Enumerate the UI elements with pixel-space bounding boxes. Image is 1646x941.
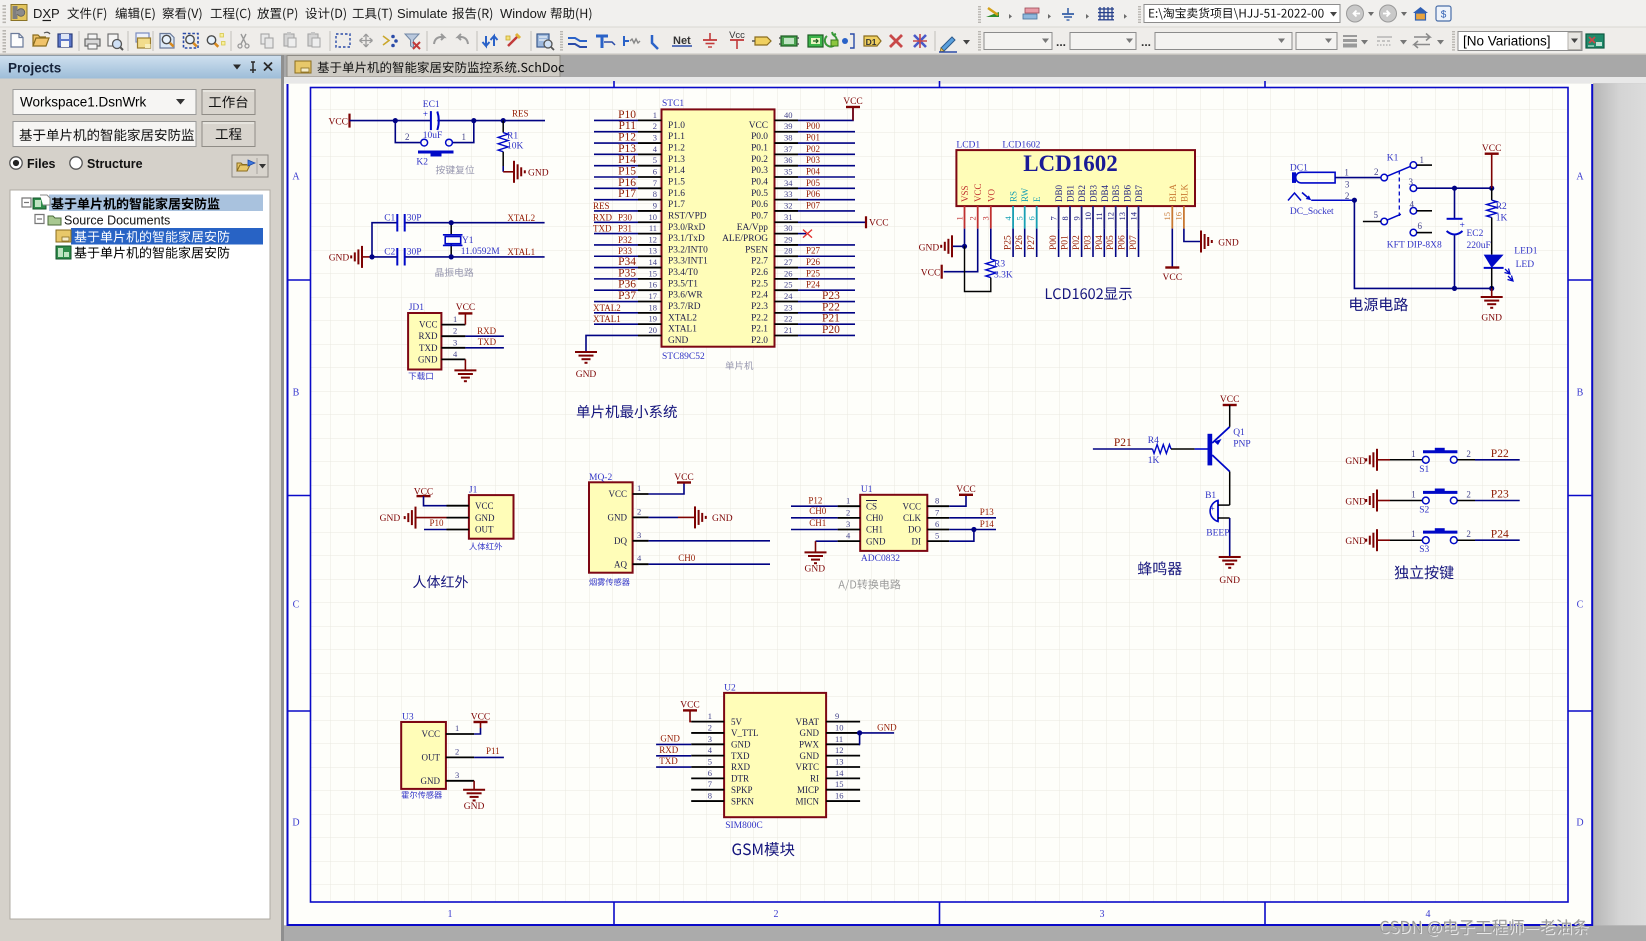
- svg-text:3: 3: [1345, 179, 1350, 189]
- keys caption: [1395, 565, 1454, 579]
- svg-text:GND: GND: [1218, 238, 1239, 248]
- toolbar: no-erc: [890, 35, 902, 47]
- svg-text:R4: R4: [1148, 436, 1159, 446]
- toolbar: paste (disabled): [284, 32, 296, 47]
- toolbar: browse library: [537, 34, 554, 50]
- svg-text:P3.4/T0: P3.4/T0: [668, 268, 698, 278]
- svg-text:P12: P12: [808, 495, 822, 505]
- svg-text:P01: P01: [1061, 235, 1071, 250]
- svg-text:DB0: DB0: [1054, 184, 1064, 202]
- svg-text:28: 28: [784, 246, 793, 256]
- svg-text:P23: P23: [822, 290, 840, 302]
- toolbar: place gnd: [703, 33, 717, 47]
- switch K1: [1374, 154, 1443, 251]
- svg-text:CS: CS: [866, 501, 877, 511]
- svg-text:VCC: VCC: [419, 320, 438, 330]
- svg-text:VCC: VCC: [1220, 395, 1240, 405]
- buzzer gnd: [1219, 518, 1241, 586]
- connector JD1: [408, 303, 465, 370]
- svg-text:P00: P00: [806, 121, 821, 131]
- svg-text:P0.5: P0.5: [751, 189, 768, 199]
- power junctions: [1352, 186, 1494, 291]
- svg-text:16: 16: [649, 280, 658, 290]
- svg-text:32: 32: [784, 200, 793, 210]
- svg-text:Y1: Y1: [462, 236, 474, 246]
- svg-text:[No Variations]: [No Variations]: [1463, 34, 1551, 49]
- toolbar: redo (disabled): [458, 34, 468, 44]
- svg-text:VCC: VCC: [608, 489, 627, 499]
- svg-text:P1.2: P1.2: [668, 144, 685, 154]
- toolbar: cross probe: [483, 36, 498, 46]
- svg-text:P15: P15: [618, 166, 636, 178]
- svg-text:8: 8: [653, 189, 657, 199]
- sheet outer border: [288, 84, 1593, 925]
- svg-text:GND: GND: [660, 734, 680, 744]
- svg-text:VCC: VCC: [956, 485, 976, 495]
- toolbar: place wire: [568, 38, 587, 47]
- svg-text:S3: S3: [1419, 545, 1429, 555]
- svg-text:P36: P36: [618, 279, 636, 291]
- svg-text:K2: K2: [416, 158, 428, 168]
- svg-text:P0.0: P0.0: [751, 132, 768, 142]
- toolbar combo 4: [1296, 33, 1337, 50]
- svg-text:5: 5: [708, 757, 712, 767]
- svg-text:14: 14: [835, 768, 844, 778]
- svg-text:B: B: [293, 388, 300, 399]
- toolbar: pin tool: [842, 34, 854, 48]
- svg-text:C: C: [293, 600, 300, 611]
- toolbar: new document: [11, 34, 23, 48]
- svg-text:P27: P27: [806, 246, 821, 256]
- svg-text:3: 3: [708, 734, 712, 744]
- svg-text:13: 13: [1117, 212, 1127, 221]
- mcu right wires P00-P07: [798, 121, 855, 211]
- canvas background: [284, 77, 1646, 941]
- toolbar: workspace documents: [136, 33, 151, 48]
- svg-text:1: 1: [1411, 529, 1416, 539]
- svg-text:P2.3: P2.3: [751, 302, 768, 312]
- svg-text:2: 2: [1466, 490, 1471, 500]
- pir connector J1: [447, 486, 514, 539]
- toolbar: fit document: [160, 34, 174, 49]
- svg-text:3: 3: [1409, 177, 1414, 187]
- svg-text:DXP: DXP: [33, 6, 60, 21]
- svg-text:P07: P07: [806, 200, 821, 210]
- svg-text:36: 36: [784, 155, 793, 165]
- svg-text:RST/VPD: RST/VPD: [668, 211, 707, 221]
- svg-text:S2: S2: [1419, 506, 1429, 516]
- crystal ground: [329, 246, 372, 268]
- power vcc: [1482, 144, 1502, 188]
- svg-text:SPKP: SPKP: [731, 785, 753, 795]
- svg-text:4: 4: [1426, 909, 1431, 920]
- capacitor C2 30P: [384, 248, 421, 266]
- svg-text:7: 7: [1048, 216, 1058, 220]
- adc U1 ADC0832: [838, 485, 950, 564]
- svg-text:31: 31: [784, 212, 793, 222]
- svg-text:1: 1: [1411, 490, 1416, 500]
- svg-text:18: 18: [649, 302, 658, 312]
- svg-text:A: A: [292, 172, 300, 183]
- svg-text:V_TTL: V_TTL: [731, 728, 759, 738]
- tree row: project (highlighted): [22, 195, 263, 212]
- svg-text:P25: P25: [806, 268, 821, 278]
- svg-text:C: C: [1577, 600, 1584, 611]
- svg-text:2: 2: [1374, 167, 1379, 177]
- svg-text:CLK: CLK: [903, 513, 922, 523]
- project button: [202, 122, 255, 147]
- svg-text:27: 27: [784, 257, 793, 267]
- svg-text:DB7: DB7: [1134, 184, 1144, 202]
- svg-text:GND: GND: [800, 728, 820, 738]
- svg-text:P04: P04: [806, 167, 821, 177]
- svg-text:1: 1: [653, 110, 657, 120]
- mcu P32 P33 wires: [594, 235, 638, 256]
- svg-text:U1: U1: [861, 485, 873, 495]
- svg-text:U3: U3: [402, 713, 414, 723]
- q1 vcc: [1220, 395, 1240, 427]
- mcu XTAL wires: [593, 303, 638, 324]
- svg-text:GND: GND: [1219, 576, 1240, 586]
- toolbar: draw tool: [939, 37, 957, 52]
- svg-text:GND: GND: [475, 513, 495, 523]
- svg-text:10: 10: [1083, 212, 1093, 221]
- svg-text:DB5: DB5: [1111, 184, 1121, 202]
- u3 vcc: [471, 713, 491, 735]
- svg-text:13: 13: [835, 757, 844, 767]
- svg-text:P2.1: P2.1: [751, 325, 768, 335]
- svg-text:P35: P35: [618, 267, 636, 279]
- lcd contrast R3: [965, 229, 1013, 292]
- toolbar: paste special (disabled): [308, 32, 320, 47]
- svg-text:8: 8: [1060, 216, 1070, 220]
- svg-text:XTAL1: XTAL1: [507, 247, 535, 257]
- svg-text:ADC0832: ADC0832: [861, 554, 900, 564]
- svg-text:B1: B1: [1205, 491, 1216, 501]
- svg-text:CH1: CH1: [866, 525, 883, 535]
- svg-text:P03: P03: [1084, 235, 1094, 250]
- svg-text:VCC: VCC: [328, 118, 348, 128]
- svg-text:1: 1: [1344, 167, 1349, 177]
- svg-text:+: +: [1210, 503, 1215, 513]
- svg-text:3.3K: 3.3K: [994, 270, 1013, 280]
- net labels XTAL: [507, 213, 535, 257]
- reset vcc power: [328, 114, 349, 128]
- svg-text:P05: P05: [806, 178, 821, 188]
- svg-text:GND: GND: [877, 723, 897, 733]
- tab bar: [284, 55, 1646, 77]
- svg-text:P3.6/WR: P3.6/WR: [668, 291, 703, 301]
- adc caption: [838, 579, 900, 590]
- power caption: [1350, 297, 1408, 311]
- svg-text:12: 12: [1106, 212, 1116, 221]
- svg-text:+: +: [1460, 221, 1465, 231]
- lcd vss gnd: [919, 229, 968, 258]
- gsm vcc: [680, 701, 700, 722]
- capacitor C1 30P: [384, 214, 421, 232]
- svg-text:GND: GND: [528, 168, 549, 178]
- svg-text:P1.0: P1.0: [668, 121, 685, 131]
- svg-text:15: 15: [835, 779, 844, 789]
- svg-text:XTAL2: XTAL2: [507, 213, 535, 223]
- crystal Y1: [443, 235, 500, 257]
- svg-text:JD1: JD1: [409, 303, 425, 313]
- mcu left wires P10-P17: [594, 109, 638, 200]
- svg-text:34: 34: [784, 178, 793, 188]
- svg-text:10K: 10K: [507, 142, 524, 152]
- svg-text:VCC: VCC: [843, 97, 863, 107]
- svg-text:B: B: [1577, 388, 1584, 399]
- svg-text:1: 1: [462, 132, 467, 142]
- toolbar: print preview: [108, 34, 123, 50]
- mcu right wires P23-P20: [798, 290, 855, 336]
- svg-text:VCC: VCC: [749, 121, 768, 131]
- svg-text:P05: P05: [1106, 235, 1116, 250]
- svg-text:STC89C52: STC89C52: [662, 352, 705, 362]
- gsm rxd wire: [656, 745, 691, 756]
- svg-text:RI: RI: [810, 774, 819, 784]
- svg-text:P0.4: P0.4: [751, 178, 768, 188]
- svg-text:6: 6: [708, 768, 712, 778]
- svg-text:P1.4: P1.4: [668, 166, 685, 176]
- svg-text:P1.7: P1.7: [668, 200, 685, 210]
- svg-text:17: 17: [649, 291, 658, 301]
- minimal system caption: [577, 405, 677, 418]
- junction dots reset: [393, 118, 506, 123]
- resistor R1 10K: [498, 121, 523, 152]
- svg-text:P1.1: P1.1: [668, 132, 685, 142]
- mcu vcc wire pin40: [798, 107, 853, 120]
- svg-text:LED1: LED1: [1514, 247, 1537, 257]
- workspace combo: [13, 90, 196, 115]
- svg-text:SIM800C: SIM800C: [725, 821, 762, 831]
- main toolbar: [0, 28, 1646, 56]
- svg-text:XTAL1: XTAL1: [593, 314, 621, 324]
- u3 out wire: [474, 746, 504, 757]
- svg-text:GND: GND: [464, 802, 485, 812]
- svg-text:TXD: TXD: [478, 337, 497, 347]
- svg-text:P13: P13: [980, 507, 995, 517]
- svg-text:Projects: Projects: [8, 61, 61, 76]
- svg-text:DB2: DB2: [1077, 185, 1087, 202]
- svg-text:R2: R2: [1496, 202, 1507, 212]
- svg-text:P34: P34: [618, 256, 636, 268]
- mq2 caption: [589, 578, 630, 586]
- svg-text:DB6: DB6: [1123, 184, 1133, 202]
- svg-text:LED: LED: [1516, 260, 1535, 270]
- svg-text:XTAL2: XTAL2: [593, 303, 621, 313]
- toolbar: copy (disabled): [261, 34, 273, 48]
- svg-text:22: 22: [784, 314, 793, 324]
- svg-text:ALE/PROG: ALE/PROG: [722, 234, 768, 244]
- toolbar: place bus: [596, 36, 615, 48]
- open button: [232, 155, 268, 177]
- toolbar: open: [33, 32, 50, 46]
- svg-text:Workspace1.DsnWrk: Workspace1.DsnWrk: [20, 95, 147, 110]
- svg-text:Files: Files: [27, 157, 56, 171]
- svg-text:16: 16: [835, 791, 844, 801]
- svg-text:P2.7: P2.7: [751, 257, 768, 267]
- svg-text:VCC: VCC: [973, 183, 983, 202]
- svg-text:P3.5/T1: P3.5/T1: [668, 279, 698, 289]
- project tree: [10, 190, 270, 919]
- watermark: [1380, 919, 1589, 937]
- svg-text:STC1: STC1: [662, 99, 684, 109]
- svg-text:33: 33: [784, 189, 793, 199]
- svg-text:GND: GND: [866, 536, 886, 546]
- active tab: [287, 56, 560, 78]
- mq2 aq wire: [649, 553, 770, 564]
- svg-text:D: D: [292, 818, 299, 829]
- toolbar: place ic: [779, 36, 799, 46]
- svg-text:35: 35: [784, 167, 793, 177]
- svg-text:XTAL2: XTAL2: [668, 313, 697, 323]
- svg-text:P11: P11: [619, 120, 637, 132]
- svg-text:9: 9: [1071, 216, 1081, 220]
- svg-text:RXD: RXD: [659, 745, 679, 755]
- svg-text:P0.7: P0.7: [751, 211, 768, 221]
- crystal wires: [372, 223, 545, 257]
- led LED1: [1484, 247, 1538, 289]
- svg-text:AQ: AQ: [614, 559, 627, 569]
- svg-text:BLK: BLK: [1179, 183, 1189, 202]
- toolbar: line width: [1343, 36, 1357, 46]
- svg-text:LCD1: LCD1: [956, 141, 980, 151]
- gsm right gnd: [857, 723, 897, 745]
- panel header buttons: [233, 62, 272, 73]
- svg-text:Window: Window: [500, 6, 547, 21]
- projects panel: [0, 55, 281, 941]
- zone labels: [292, 172, 1584, 921]
- mcu P34-P37 wires: [594, 256, 638, 302]
- svg-text:P3.7/RD: P3.7/RD: [668, 302, 701, 312]
- workspace button: [202, 90, 255, 115]
- svg-text:1: 1: [846, 496, 850, 506]
- svg-text:P21: P21: [1114, 437, 1132, 449]
- svg-text:P3.1/TxD: P3.1/TxD: [668, 234, 705, 244]
- svg-text:P22: P22: [1491, 448, 1509, 460]
- svg-text:K1: K1: [1387, 154, 1399, 164]
- svg-text:GND: GND: [1345, 537, 1366, 547]
- svg-text:RES: RES: [593, 201, 610, 211]
- lcd backlight gnd: [1184, 229, 1239, 253]
- toolbar: zoom area: [184, 34, 199, 49]
- svg-text:P10: P10: [618, 109, 636, 121]
- svg-text:Source Documents: Source Documents: [64, 214, 170, 228]
- svg-text:14: 14: [649, 257, 658, 267]
- svg-text:P21: P21: [822, 313, 840, 325]
- svg-text:30P: 30P: [407, 214, 422, 224]
- svg-text:2: 2: [1466, 449, 1471, 459]
- svg-text:EC1: EC1: [423, 100, 440, 110]
- svg-text:7: 7: [653, 178, 657, 188]
- svg-text:5: 5: [935, 531, 939, 541]
- svg-text:23: 23: [784, 302, 793, 312]
- toolbar: place component: [752, 37, 771, 45]
- svg-text:3: 3: [846, 519, 850, 529]
- svg-text:2: 2: [653, 121, 657, 131]
- svg-text:GND: GND: [421, 776, 441, 786]
- svg-text:GND: GND: [1345, 457, 1366, 467]
- toolbar: designator tool: [864, 36, 881, 47]
- svg-text:GND: GND: [418, 354, 438, 364]
- svg-text:1: 1: [1411, 449, 1416, 459]
- svg-text:GND: GND: [712, 514, 733, 524]
- svg-text:P12: P12: [618, 132, 636, 144]
- jd1 vcc power: [456, 303, 476, 325]
- svg-text:TXD: TXD: [419, 343, 438, 353]
- toolbar: arrange: [383, 35, 398, 48]
- svg-text:BLA: BLA: [1168, 183, 1178, 202]
- svg-text:GND: GND: [919, 243, 940, 253]
- svg-text:BEEP: BEEP: [1206, 529, 1229, 539]
- svg-text:R1: R1: [507, 132, 518, 142]
- dc jack DC1: [1288, 163, 1355, 217]
- svg-text:DC_Socket: DC_Socket: [1290, 207, 1334, 217]
- svg-text:6: 6: [1418, 221, 1423, 231]
- svg-text:12: 12: [835, 745, 844, 755]
- svg-text:26: 26: [784, 268, 793, 278]
- adc gnd: [805, 541, 838, 574]
- toolbar: cut (disabled): [238, 34, 249, 48]
- key switch S1: [1345, 448, 1519, 475]
- svg-text:E: E: [1032, 196, 1042, 202]
- svg-text:1: 1: [1420, 155, 1425, 165]
- lcd U:LCD1 LCD1602: [956, 141, 1195, 207]
- svg-text:Net: Net: [673, 35, 691, 47]
- svg-text:P07: P07: [1129, 235, 1139, 250]
- sheet inner border: [311, 88, 1569, 903]
- svg-text:P0.3: P0.3: [751, 166, 768, 176]
- variations pcb icon: [1586, 34, 1604, 48]
- toolbar: select region: [336, 34, 350, 47]
- svg-text:P33: P33: [618, 246, 633, 256]
- svg-text:P24: P24: [1491, 528, 1509, 540]
- mq2 dq wire: [649, 540, 770, 542]
- buzzer caption: [1138, 561, 1182, 575]
- mcu RXD P30 wire: [593, 212, 638, 222]
- svg-text:10: 10: [649, 212, 658, 222]
- svg-text:P22: P22: [822, 301, 840, 313]
- svg-text:A: A: [1576, 172, 1584, 183]
- toolbar: move (disabled): [360, 34, 373, 47]
- svg-text:RXD: RXD: [418, 331, 438, 341]
- svg-text:3: 3: [1100, 909, 1105, 920]
- svg-text:Q1: Q1: [1233, 428, 1245, 438]
- buzzer B1 BEEP: [1205, 472, 1230, 539]
- lcd pins: [954, 183, 1189, 228]
- toolbar: clear filter: [405, 34, 420, 49]
- net label RES: [512, 109, 529, 119]
- adc clk wire: [949, 507, 996, 518]
- toolbar: line style: [1377, 37, 1392, 45]
- svg-text:2: 2: [846, 507, 850, 517]
- svg-text:VCC: VCC: [1163, 273, 1183, 283]
- junction dots crystal: [369, 220, 453, 259]
- svg-text:DB3: DB3: [1089, 184, 1099, 202]
- svg-text:GND: GND: [731, 740, 751, 750]
- svg-text:P0.6: P0.6: [751, 200, 768, 210]
- svg-text:P26: P26: [806, 257, 821, 267]
- svg-text:8: 8: [935, 496, 939, 506]
- svg-text:LCD1602: LCD1602: [1023, 151, 1118, 176]
- svg-text:P01: P01: [806, 133, 820, 143]
- svg-text:R3: R3: [994, 259, 1005, 269]
- svg-text:EA/Vpp: EA/Vpp: [737, 223, 769, 233]
- hall sensor U3: [401, 713, 474, 789]
- svg-text:P30: P30: [618, 212, 633, 222]
- svg-text:P02: P02: [806, 144, 820, 154]
